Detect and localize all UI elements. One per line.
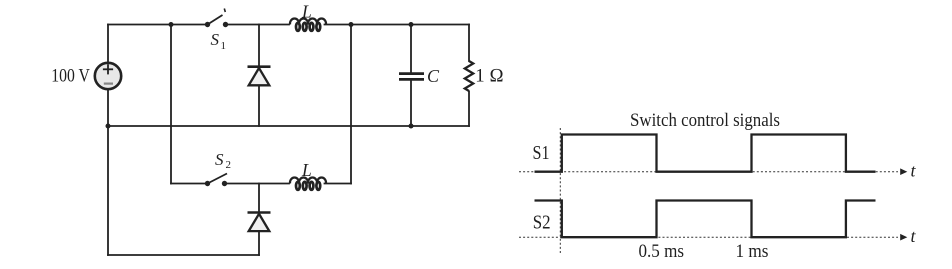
node: junction dot capacitor bottom	[409, 124, 414, 129]
svg-text:C: C	[427, 66, 440, 86]
wire top rail left segment	[108, 24, 208, 26]
svg-text:1 ms: 1 ms	[736, 241, 769, 262]
S2 waveform	[535, 201, 876, 238]
wire output vertical from L2 branch to output node (crosses ground rail)	[350, 25, 352, 184]
node: junction dot top rail S2 tap	[169, 22, 174, 27]
wire diode D1 branch	[258, 25, 260, 127]
diode D1	[248, 67, 271, 86]
wire resistor bottom lead	[468, 92, 470, 127]
switch S1	[205, 9, 228, 28]
wire bottom return horizontal	[108, 254, 259, 256]
resistor R 1 ohm	[465, 61, 473, 91]
wire S2 branch middle segment	[225, 183, 289, 185]
svg-text:L: L	[301, 160, 312, 180]
svg-text:L: L	[301, 2, 312, 22]
svg-text:0.5 ms: 0.5 ms	[639, 241, 685, 262]
wire top rail right segment (inductor L1 to resistor)	[325, 24, 470, 26]
wire bottom return vertical	[107, 126, 109, 255]
switch S2	[205, 174, 227, 187]
S1 time axis (dotted)	[519, 171, 898, 173]
wire capacitor top lead	[410, 25, 412, 74]
wire diode D2 top lead	[258, 184, 260, 213]
diode D2	[248, 213, 271, 232]
inductor L2	[290, 178, 326, 190]
voltage source Vs 100 V	[95, 63, 121, 89]
svg-text:1 Ω: 1 Ω	[475, 66, 504, 87]
node: junction dot output node after L1	[349, 22, 354, 27]
svg-text:Switch control signals: Switch control signals	[630, 110, 780, 131]
wire S2 branch right segment	[325, 183, 352, 185]
wire capacitor bottom lead	[410, 80, 412, 126]
S2 time axis (dotted)	[519, 236, 898, 238]
svg-text:1: 1	[221, 40, 227, 52]
wire top rail middle segment (switch S1 to inductor L1)	[226, 24, 290, 26]
svg-text:S: S	[215, 150, 224, 169]
svg-text:2: 2	[226, 159, 232, 171]
dotted vertical at t=0	[559, 128, 561, 254]
S1 axis arrowhead	[900, 168, 907, 175]
svg-text:100 V: 100 V	[51, 66, 90, 87]
svg-text:S: S	[211, 30, 220, 49]
node: junction dot ground left	[106, 124, 111, 129]
wire source bottom lead	[107, 89, 109, 127]
wire resistor top lead	[468, 25, 470, 62]
wire source top lead	[107, 25, 109, 64]
wire diode D2 bottom lead	[258, 231, 260, 255]
capacitor C	[399, 74, 424, 80]
wire S2 branch left segment	[171, 183, 208, 185]
S1 waveform	[535, 135, 876, 172]
wire S2 input tap (crosses ground rail)	[170, 25, 172, 184]
svg-text:S1: S1	[533, 142, 550, 164]
node: junction dot capacitor top	[409, 22, 414, 27]
svg-text:S2: S2	[533, 212, 551, 234]
S2 axis arrowhead	[900, 234, 907, 241]
wire ground rail	[108, 125, 469, 127]
inductor L1	[290, 19, 326, 31]
